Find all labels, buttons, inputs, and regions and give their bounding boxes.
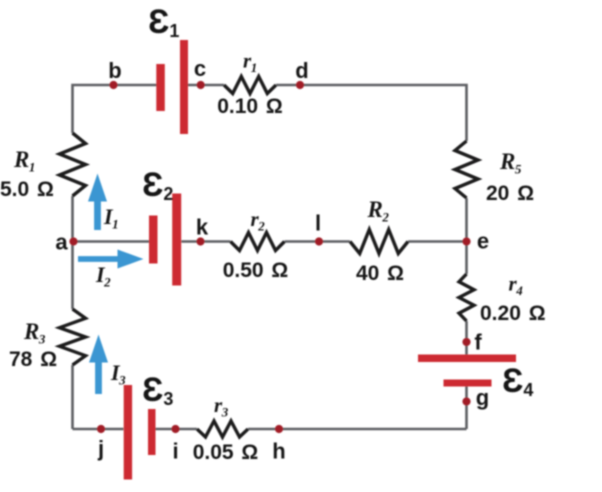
svg-text:d: d [295,58,308,83]
wire bottom-right corner to node h [279,428,467,431]
svg-text:0.20 Ω: 0.20 Ω [480,302,546,325]
resistor r1 [224,77,276,94]
wire top-left corner segment (left of node b to R1 top) [73,85,157,133]
wire node a up to R1 bottom [71,196,74,242]
resistor R5 [455,141,478,198]
svg-text:l: l [315,211,321,236]
resistor R3 [60,309,86,365]
battery E2 short (negative) plate [149,216,158,264]
battery E3 long (positive) plate [124,385,132,480]
node a [69,237,77,245]
svg-text:e: e [477,229,489,254]
node l [315,237,323,245]
battery E3 short (negative) plate [148,409,156,455]
current arrow I2 [78,250,144,269]
wire r3 to node i to epsilon3 short bar [156,428,198,431]
wire r2 through node l to R2 [285,240,351,243]
wire epsilon4 through node g to bottom-right corner [465,387,468,430]
node c [197,81,205,89]
wire R3 top up to node a [71,242,74,310]
wire r1 through node d to top-right corner down to R5 [276,85,467,141]
svg-text:f: f [474,330,482,355]
node g [462,397,470,405]
node f [462,338,470,346]
node i [171,425,179,433]
resistor r4 [459,274,474,321]
resistor r3 [197,421,248,437]
svg-text:j: j [97,436,104,461]
wire epsilon3 long bar through node j to bottom-left corner [73,428,124,431]
node e [462,237,470,245]
current arrow I3 [89,335,108,395]
svg-text:k: k [196,215,209,240]
wire R5 bottom to node e [465,198,468,242]
svg-text:h: h [272,439,285,464]
svg-text:5.0 Ω: 5.0 Ω [0,178,54,201]
battery E1 short (negative) plate [156,64,165,111]
svg-text:a: a [55,230,68,255]
node k [196,237,204,245]
wire bottom-left corner up to R3 bottom [71,365,74,429]
svg-text:g: g [476,385,489,410]
battery E2 long (positive) plate [172,194,181,286]
node d [296,81,304,89]
svg-text:b: b [108,58,121,83]
node h [275,425,283,433]
svg-text:c: c [194,56,206,81]
battery E4 short (negative) plate [444,380,492,387]
battery E1 long (positive) plate [180,40,188,134]
node b [109,81,117,89]
node j [97,425,105,433]
resistor R1 [60,133,86,196]
resistor r2 [231,233,285,251]
wire node h to r3 [248,428,279,431]
current arrow I1 [88,174,107,231]
wire r4 bottom through node f to epsilon4 [465,321,468,355]
resistor R2 [350,230,408,254]
wire epsilon2 long bar through node k to r2 [181,240,230,243]
svg-text:20 Ω: 20 Ω [486,182,534,205]
wire R2 to node e [408,240,467,243]
svg-text:40 Ω: 40 Ω [356,262,404,285]
svg-text:i: i [172,439,178,464]
wire node e down to r4 top [465,242,468,275]
svg-text:0.05 Ω: 0.05 Ω [193,441,259,464]
wire epsilon1 to node c to r1 [188,84,224,87]
svg-text:0.50 Ω: 0.50 Ω [223,259,289,282]
wire node a to epsilon2 short bar [73,240,150,243]
battery E4 long (positive) plate [418,355,516,363]
svg-text:78 Ω: 78 Ω [9,348,57,371]
svg-text:0.10 Ω: 0.10 Ω [217,95,283,118]
